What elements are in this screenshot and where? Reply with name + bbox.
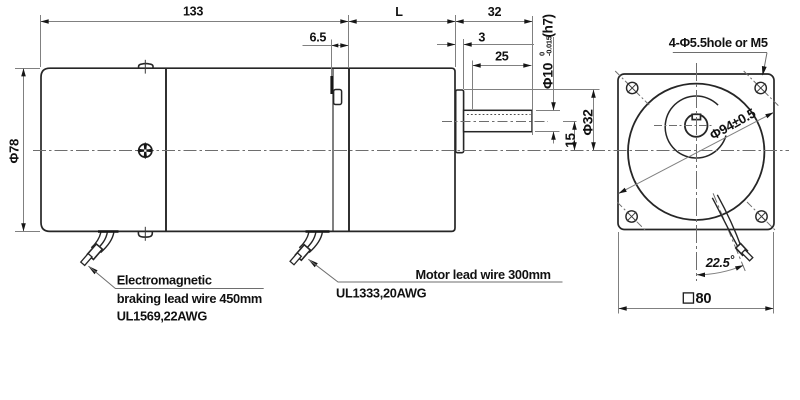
front view flange square: [618, 74, 774, 230]
svg-text:UL1333,20AWG: UL1333,20AWG: [336, 285, 427, 300]
front vertical centerline: [696, 63, 698, 281]
dim 25 arrows: [473, 63, 481, 68]
dim phi10 extensions: [536, 110, 560, 112]
top screw axis tick: [144, 60, 146, 74]
label phi10 h7 (rotated): [538, 14, 556, 89]
dim phi32 text (rotated): [579, 109, 595, 136]
gearhead case joint line: [165, 68, 167, 231]
wire 2 tip: [290, 253, 301, 265]
dim phi32 extension: [464, 89, 600, 91]
dim phi94 text (rotated): [707, 105, 759, 143]
bottom screw axis tick: [144, 227, 146, 241]
dim L line: [349, 21, 456, 23]
dim square80 extensions: [618, 232, 620, 314]
dim phi78 arrows: [21, 68, 26, 76]
junction bar: [330, 76, 333, 94]
svg-text:L: L: [395, 5, 403, 19]
svg-text:4-Φ5.5hole or M5: 4-Φ5.5hole or M5: [669, 35, 768, 50]
corner hole BL: [617, 202, 646, 231]
dim 15 text (rotated): [563, 133, 578, 148]
bottom screw dome: [138, 231, 152, 237]
leader 1 line: [89, 266, 264, 288]
wire 2: [299, 233, 309, 248]
junction tab: [334, 90, 342, 105]
gearhead flange line: [332, 68, 334, 231]
dim 6.5 arrows: [332, 44, 339, 48]
22.5 degree angled centerline: [713, 193, 746, 272]
dim 32 arrows: [456, 19, 464, 24]
label leader arrow: [762, 66, 767, 76]
svg-text:133: 133: [183, 5, 203, 19]
front wire: [712, 198, 737, 246]
svg-text:15: 15: [563, 133, 578, 148]
svg-text:25: 25: [495, 50, 509, 64]
label underline: [673, 52, 767, 54]
dim phi10 arrows: [551, 102, 556, 110]
svg-text:Φ78: Φ78: [7, 139, 22, 164]
dim 133 line: [41, 21, 349, 23]
shaft boss: [456, 90, 464, 153]
svg-text:°: °: [730, 255, 735, 267]
leader 1 arrow: [88, 266, 98, 275]
svg-text:6.5: 6.5: [309, 31, 326, 45]
wire grommet 1: [98, 230, 119, 233]
wire grommet 2: [306, 230, 330, 233]
svg-text:Electromagnetic: Electromagnetic: [117, 273, 212, 288]
dim square80 line: [619, 308, 774, 310]
dim phi94 line: [619, 113, 774, 194]
dim 3 extension: [463, 39, 465, 89]
dim 15 arrows: [572, 122, 577, 130]
shaft centerline: [442, 121, 548, 123]
label leader: [763, 53, 767, 73]
dim 3 arrows: [447, 42, 455, 47]
dim square80 text: [683, 293, 693, 303]
svg-text:(h7): (h7): [541, 14, 556, 37]
wire 1 sheath: [87, 244, 102, 260]
svg-text:3: 3: [478, 31, 485, 45]
front wire sheath: [736, 243, 748, 255]
dim phi78 line: [23, 68, 25, 231]
svg-text:braking lead wire 450mm: braking lead wire 450mm: [117, 291, 262, 306]
dim 32 line: [456, 21, 533, 23]
svg-text:Φ32: Φ32: [579, 109, 595, 136]
dim phi32 arrows: [591, 90, 596, 98]
wire 2 sheath: [295, 245, 310, 261]
phillips screw head: [137, 142, 154, 159]
dim phi78 text (rotated): [7, 139, 22, 164]
dim 25 extension: [472, 61, 474, 110]
dim phi10 line: [553, 37, 555, 110]
gearhead/motor junction line: [348, 68, 350, 231]
dim 3 line: [437, 44, 456, 46]
dim 22.5 arc: [696, 265, 743, 274]
front wire tip: [742, 250, 753, 261]
svg-text:22.5: 22.5: [705, 255, 731, 270]
dim 6.5 extension: [331, 40, 333, 77]
dim 133 arrows: [41, 19, 49, 24]
leader 2 arrow: [308, 259, 318, 267]
dim 6.5 line: [303, 45, 349, 47]
svg-text:32: 32: [488, 5, 502, 19]
wire 1 tip: [81, 254, 92, 266]
svg-text:Motor lead wire 300mm: Motor lead wire 300mm: [416, 267, 551, 282]
svg-text:UL1569,22AWG: UL1569,22AWG: [117, 309, 208, 324]
dim square80 arrows: [619, 306, 627, 311]
dim 25 line: [473, 65, 532, 67]
leader 2 line: [309, 260, 563, 282]
dim 32 extension: [455, 15, 457, 67]
keyway hidden line: [467, 114, 531, 116]
front keyway: [692, 114, 700, 119]
corner hole TR: [744, 71, 780, 107]
dim phi78 extensions: [15, 68, 40, 70]
front boss circle (broken for text): [665, 96, 726, 158]
dim 22.5 arrows: [697, 273, 705, 278]
dim 15 line: [574, 122, 576, 151]
svg-text:80: 80: [696, 291, 712, 307]
top screw dome: [139, 64, 153, 69]
gearmotor body outline: [41, 68, 455, 231]
main horizontal centerline: [33, 150, 789, 152]
dim phi32 line: [593, 90, 595, 151]
output shaft: [464, 110, 532, 131]
corner hole BR: [747, 202, 776, 231]
front shaft horizontal centerline: [654, 125, 712, 127]
dim L extension shared: [348, 15, 350, 67]
corner hole TL: [615, 71, 649, 105]
front shaft circle: [685, 114, 708, 137]
wire 1: [91, 233, 101, 248]
front gear case circle: [628, 84, 764, 220]
dim L arrows: [349, 19, 357, 24]
dim 133 extension left: [40, 15, 42, 67]
dim phi94 arrows: [619, 188, 627, 194]
dim 15 extension: [563, 121, 577, 123]
